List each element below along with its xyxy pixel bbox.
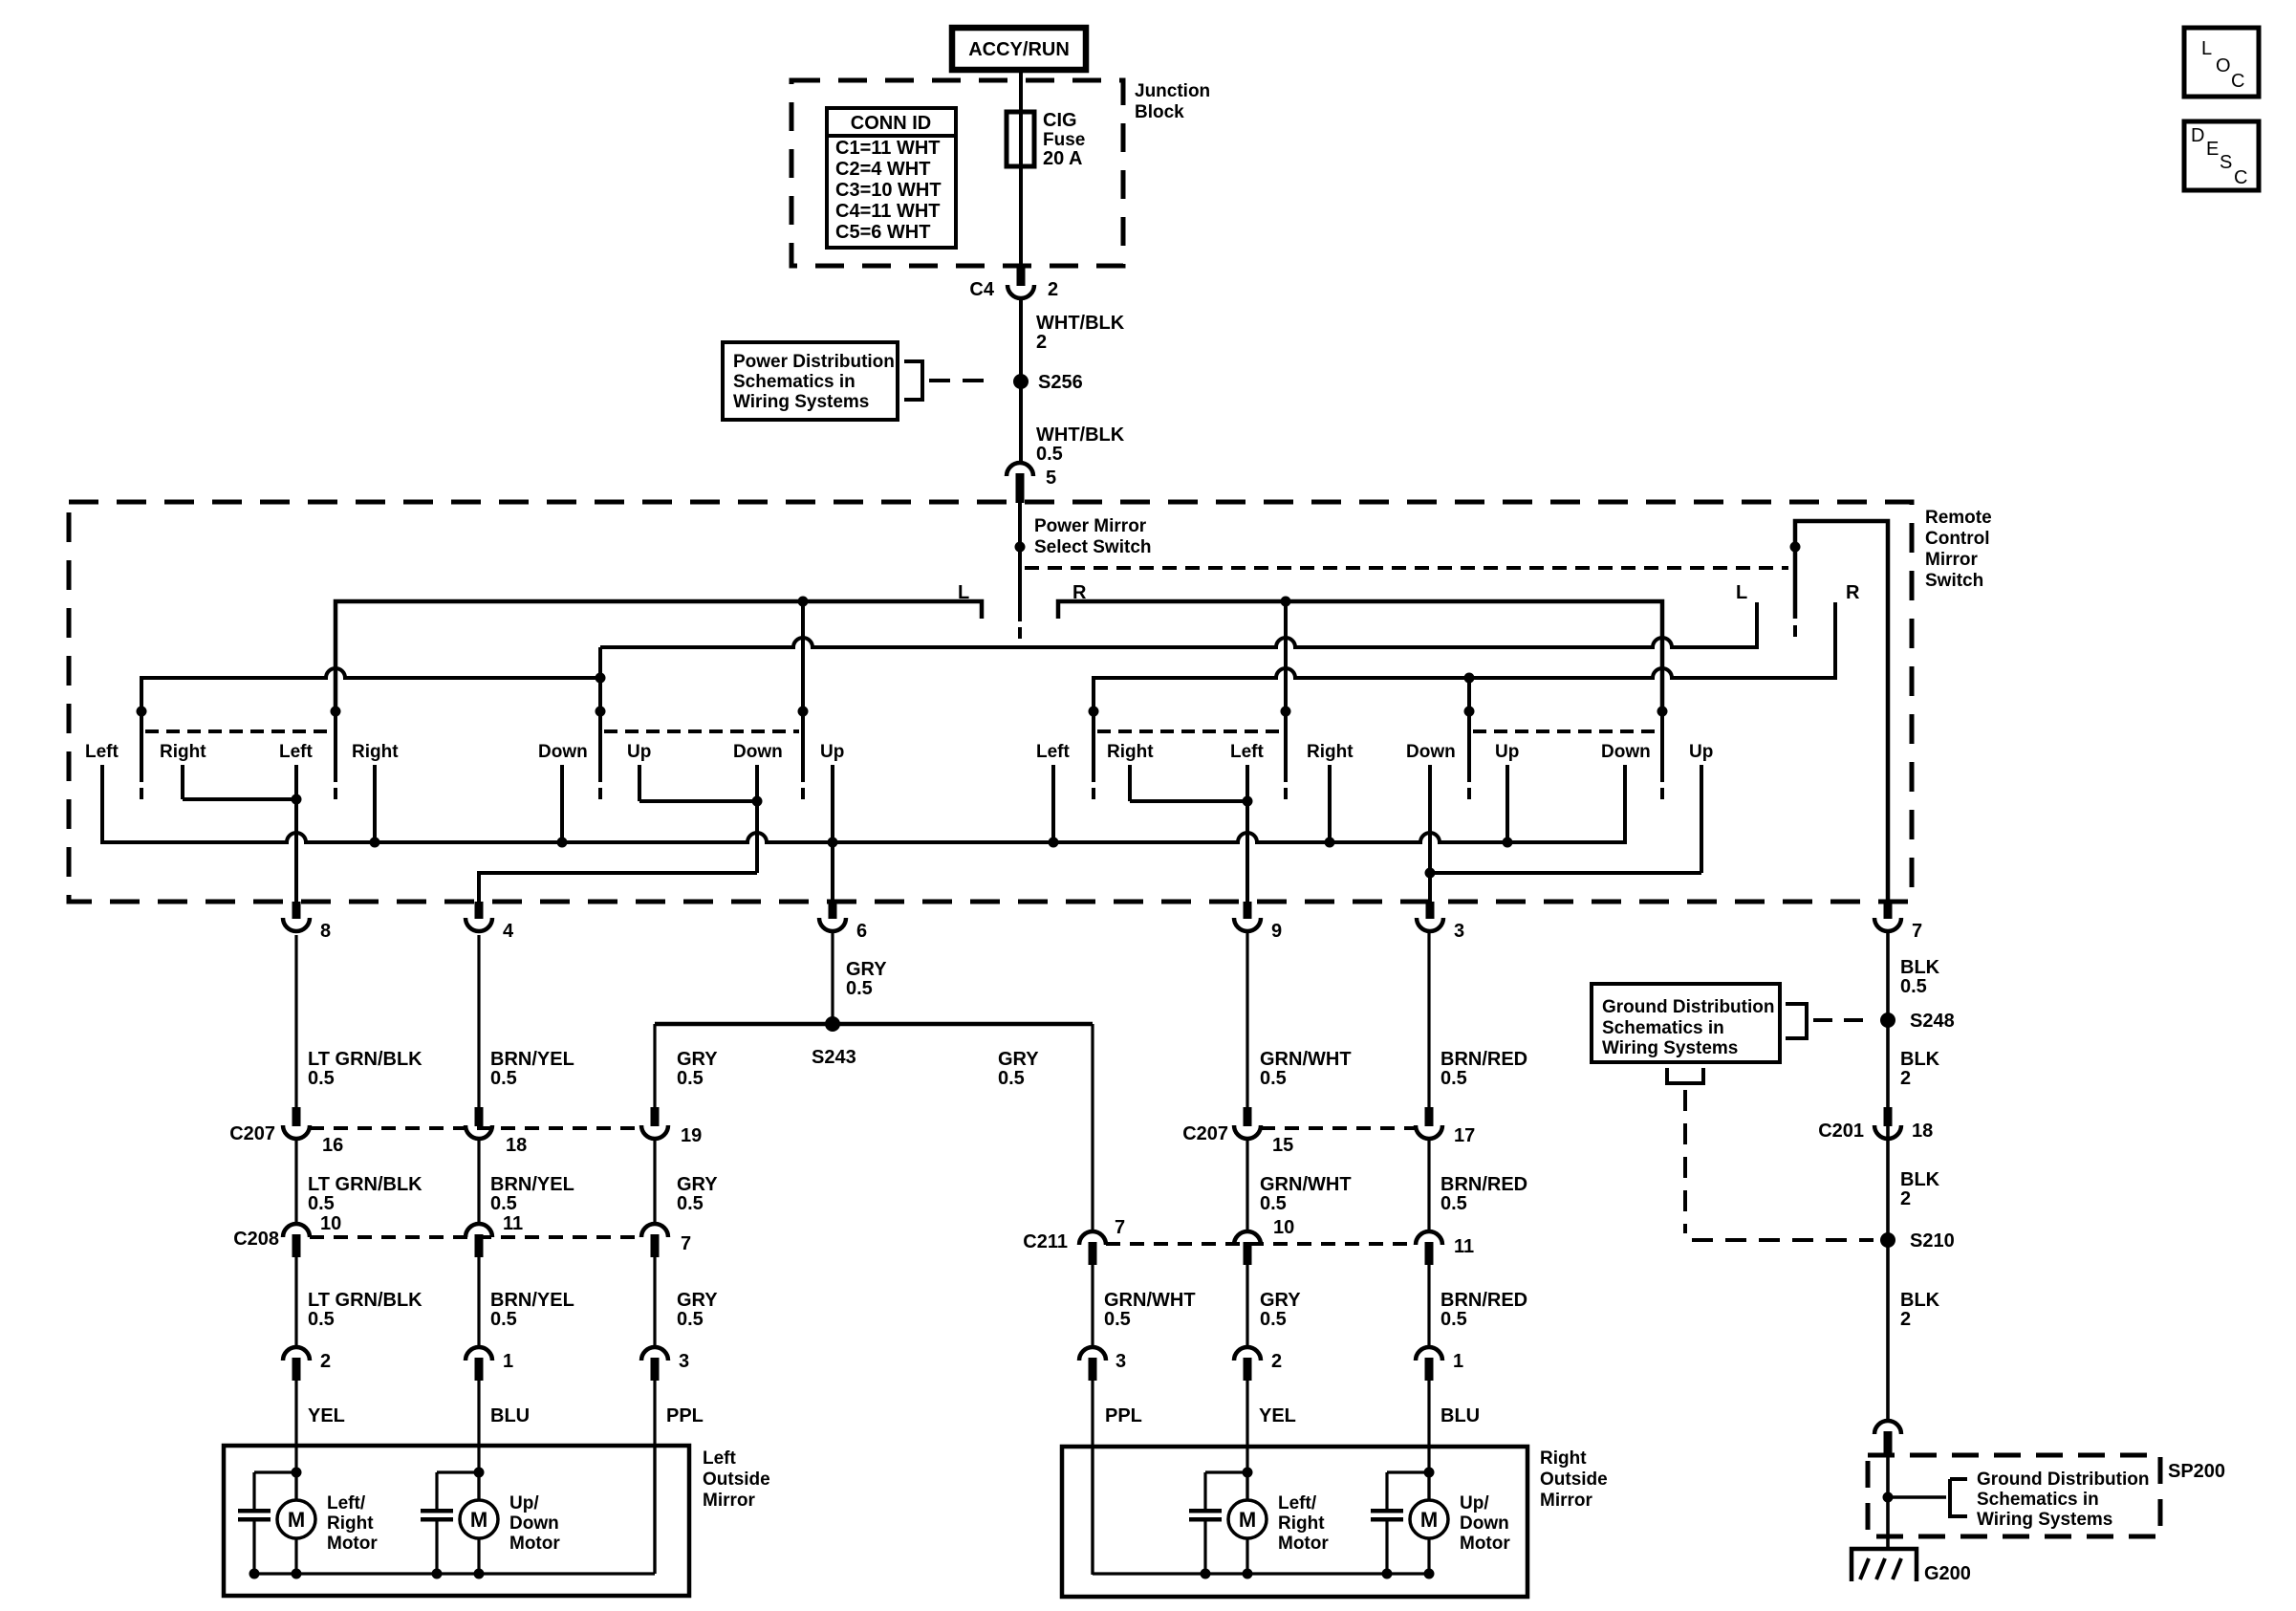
- svg-text:Right: Right: [327, 1513, 374, 1534]
- svg-text:Wiring Systems: Wiring Systems: [733, 392, 869, 412]
- svg-text:7: 7: [1115, 1217, 1125, 1238]
- svg-text:Mirror: Mirror: [703, 1491, 756, 1511]
- svg-text:Down: Down: [733, 742, 783, 762]
- svg-text:11: 11: [503, 1213, 523, 1234]
- svg-text:Mirror: Mirror: [1540, 1491, 1593, 1511]
- svg-text:LT GRN/BLK: LT GRN/BLK: [308, 1174, 422, 1195]
- svg-text:10: 10: [320, 1213, 341, 1234]
- svg-text:Motor: Motor: [509, 1534, 560, 1554]
- svg-text:BLK: BLK: [1900, 1169, 1940, 1190]
- svg-text:3: 3: [1454, 921, 1464, 942]
- svg-text:1: 1: [503, 1351, 513, 1372]
- svg-text:Motor: Motor: [327, 1534, 378, 1554]
- svg-text:E: E: [2206, 139, 2219, 160]
- svg-text:C208: C208: [233, 1229, 279, 1250]
- svg-text:C: C: [2234, 167, 2247, 188]
- svg-text:GRY: GRY: [998, 1049, 1039, 1070]
- svg-text:Motor: Motor: [1278, 1534, 1329, 1554]
- svg-text:GRY: GRY: [846, 959, 887, 980]
- svg-text:Up: Up: [820, 742, 844, 762]
- svg-text:L: L: [1736, 582, 1747, 603]
- svg-text:1: 1: [1453, 1351, 1463, 1372]
- svg-text:Down: Down: [509, 1513, 559, 1534]
- svg-text:C3=10 WHT: C3=10 WHT: [835, 180, 942, 201]
- svg-text:7: 7: [681, 1233, 691, 1254]
- svg-text:SP200: SP200: [2168, 1461, 2225, 1482]
- svg-text:Right: Right: [160, 742, 206, 762]
- svg-text:BLK: BLK: [1900, 1290, 1940, 1311]
- svg-text:C201: C201: [1818, 1121, 1864, 1142]
- svg-text:0.5: 0.5: [677, 1193, 704, 1214]
- svg-text:Switch: Switch: [1925, 571, 1983, 591]
- svg-text:18: 18: [506, 1135, 527, 1156]
- svg-text:7: 7: [1912, 921, 1922, 942]
- svg-text:0.5: 0.5: [1260, 1068, 1287, 1089]
- svg-text:Left: Left: [1230, 742, 1265, 762]
- svg-text:Down: Down: [1460, 1513, 1509, 1534]
- svg-text:0.5: 0.5: [677, 1068, 704, 1089]
- svg-text:Left: Left: [703, 1448, 737, 1469]
- svg-text:S210: S210: [1910, 1230, 1955, 1252]
- svg-text:D: D: [2191, 125, 2204, 146]
- svg-text:Schematics in: Schematics in: [1977, 1490, 2099, 1510]
- svg-text:LT GRN/BLK: LT GRN/BLK: [308, 1290, 422, 1311]
- svg-text:WHT/BLK: WHT/BLK: [1036, 425, 1125, 446]
- svg-text:18: 18: [1912, 1121, 1933, 1142]
- svg-text:YEL: YEL: [308, 1405, 345, 1426]
- svg-text:0.5: 0.5: [1900, 976, 1927, 997]
- svg-text:Up: Up: [627, 742, 651, 762]
- svg-text:Left: Left: [85, 742, 119, 762]
- svg-text:Wiring Systems: Wiring Systems: [1977, 1510, 2112, 1530]
- svg-text:BLK: BLK: [1900, 957, 1940, 978]
- svg-text:BLU: BLU: [1440, 1405, 1480, 1426]
- svg-text:2: 2: [1900, 1068, 1911, 1089]
- svg-text:Right: Right: [352, 742, 399, 762]
- svg-text:2: 2: [1036, 332, 1047, 353]
- svg-text:C4=11 WHT: C4=11 WHT: [835, 201, 940, 222]
- svg-text:Down: Down: [538, 742, 588, 762]
- svg-text:C207: C207: [1182, 1123, 1228, 1144]
- svg-text:4: 4: [503, 921, 514, 942]
- svg-text:5: 5: [1046, 468, 1056, 489]
- svg-text:R: R: [1846, 582, 1860, 603]
- svg-text:YEL: YEL: [1259, 1405, 1296, 1426]
- svg-text:6: 6: [856, 921, 867, 942]
- svg-text:0.5: 0.5: [490, 1309, 517, 1330]
- svg-text:Left: Left: [1036, 742, 1071, 762]
- svg-text:0.5: 0.5: [677, 1309, 704, 1330]
- svg-text:Fuse: Fuse: [1043, 130, 1085, 150]
- svg-text:O: O: [2216, 55, 2231, 76]
- svg-text:Right: Right: [1540, 1448, 1587, 1469]
- svg-text:BRN/RED: BRN/RED: [1440, 1174, 1527, 1195]
- svg-text:Select Switch: Select Switch: [1034, 537, 1152, 557]
- svg-text:C: C: [2231, 71, 2244, 92]
- svg-text:M: M: [1239, 1508, 1256, 1532]
- svg-text:GRY: GRY: [1260, 1290, 1301, 1311]
- svg-text:0.5: 0.5: [998, 1068, 1025, 1089]
- svg-text:LT GRN/BLK: LT GRN/BLK: [308, 1049, 422, 1070]
- svg-text:PPL: PPL: [1105, 1405, 1142, 1426]
- svg-text:Remote: Remote: [1925, 508, 1992, 528]
- svg-text:BLK: BLK: [1900, 1049, 1940, 1070]
- svg-text:Power Mirror: Power Mirror: [1034, 516, 1147, 536]
- svg-text:0.5: 0.5: [1260, 1309, 1287, 1330]
- svg-text:M: M: [470, 1508, 487, 1532]
- svg-text:19: 19: [681, 1125, 702, 1146]
- svg-text:Power Distribution: Power Distribution: [733, 352, 895, 372]
- svg-text:S: S: [2220, 152, 2232, 173]
- svg-text:C4: C4: [969, 279, 994, 300]
- svg-text:Outside: Outside: [703, 1469, 770, 1490]
- svg-text:GRY: GRY: [677, 1049, 718, 1070]
- svg-text:11: 11: [1454, 1236, 1474, 1257]
- svg-text:GRY: GRY: [677, 1174, 718, 1195]
- svg-text:BRN/YEL: BRN/YEL: [490, 1174, 574, 1195]
- svg-text:GRN/WHT: GRN/WHT: [1104, 1290, 1196, 1311]
- svg-text:8: 8: [320, 921, 331, 942]
- svg-text:0.5: 0.5: [1260, 1193, 1287, 1214]
- svg-text:15: 15: [1272, 1135, 1293, 1156]
- svg-text:2: 2: [1900, 1309, 1911, 1330]
- svg-text:PPL: PPL: [666, 1405, 704, 1426]
- svg-text:3: 3: [1116, 1351, 1126, 1372]
- svg-text:ACCY/RUN: ACCY/RUN: [968, 39, 1070, 60]
- svg-text:0.5: 0.5: [308, 1309, 335, 1330]
- svg-text:BRN/YEL: BRN/YEL: [490, 1049, 574, 1070]
- svg-text:Left/: Left/: [1278, 1493, 1317, 1513]
- svg-text:CIG: CIG: [1043, 110, 1077, 131]
- svg-text:Ground Distribution: Ground Distribution: [1602, 997, 1774, 1017]
- svg-text:2: 2: [320, 1351, 331, 1372]
- svg-text:9: 9: [1271, 921, 1282, 942]
- svg-text:17: 17: [1454, 1125, 1475, 1146]
- svg-text:Right: Right: [1107, 742, 1154, 762]
- svg-text:C1=11 WHT: C1=11 WHT: [835, 138, 940, 159]
- svg-text:Right: Right: [1307, 742, 1354, 762]
- svg-text:0.5: 0.5: [490, 1068, 517, 1089]
- svg-text:C211: C211: [1023, 1231, 1068, 1252]
- svg-text:G200: G200: [1924, 1563, 1971, 1584]
- svg-text:20 A: 20 A: [1043, 148, 1083, 169]
- svg-text:Junction: Junction: [1135, 81, 1210, 101]
- svg-text:Up: Up: [1689, 742, 1713, 762]
- svg-text:S248: S248: [1910, 1011, 1955, 1032]
- svg-text:Up: Up: [1495, 742, 1519, 762]
- svg-text:0.5: 0.5: [1104, 1309, 1131, 1330]
- svg-text:Left: Left: [279, 742, 314, 762]
- svg-text:Up/: Up/: [509, 1493, 539, 1513]
- svg-text:2: 2: [1900, 1188, 1911, 1209]
- svg-text:M: M: [288, 1508, 305, 1532]
- svg-text:BRN/RED: BRN/RED: [1440, 1049, 1527, 1070]
- svg-text:10: 10: [1273, 1217, 1294, 1238]
- svg-text:M: M: [1420, 1508, 1438, 1532]
- svg-text:Motor: Motor: [1460, 1534, 1510, 1554]
- svg-text:C5=6 WHT: C5=6 WHT: [835, 222, 930, 243]
- svg-text:0.5: 0.5: [1440, 1309, 1467, 1330]
- svg-text:Down: Down: [1601, 742, 1651, 762]
- svg-text:3: 3: [679, 1351, 689, 1372]
- svg-text:0.5: 0.5: [1440, 1193, 1467, 1214]
- svg-text:0.5: 0.5: [308, 1068, 335, 1089]
- svg-text:L: L: [2201, 38, 2212, 59]
- svg-text:S243: S243: [812, 1047, 856, 1068]
- svg-text:0.5: 0.5: [1036, 444, 1063, 465]
- svg-text:Schematics in: Schematics in: [1602, 1018, 1724, 1038]
- svg-text:C2=4 WHT: C2=4 WHT: [835, 159, 930, 180]
- svg-text:S256: S256: [1038, 372, 1083, 393]
- svg-text:2: 2: [1048, 279, 1058, 300]
- svg-text:Left/: Left/: [327, 1493, 366, 1513]
- svg-text:Wiring Systems: Wiring Systems: [1602, 1038, 1738, 1058]
- svg-text:Control: Control: [1925, 529, 1990, 549]
- svg-text:WHT/BLK: WHT/BLK: [1036, 313, 1125, 334]
- svg-text:BRN/RED: BRN/RED: [1440, 1290, 1527, 1311]
- svg-text:16: 16: [322, 1135, 343, 1156]
- svg-text:0.5: 0.5: [1440, 1068, 1467, 1089]
- svg-text:Up/: Up/: [1460, 1493, 1489, 1513]
- svg-text:2: 2: [1271, 1351, 1282, 1372]
- svg-text:BLU: BLU: [490, 1405, 530, 1426]
- svg-text:CONN ID: CONN ID: [851, 113, 931, 134]
- svg-text:Schematics in: Schematics in: [733, 372, 856, 392]
- svg-text:Ground Distribution: Ground Distribution: [1977, 1469, 2149, 1490]
- svg-text:0.5: 0.5: [846, 978, 873, 999]
- svg-text:GRN/WHT: GRN/WHT: [1260, 1049, 1352, 1070]
- svg-text:Down: Down: [1406, 742, 1456, 762]
- svg-text:0.5: 0.5: [308, 1193, 335, 1214]
- svg-text:GRN/WHT: GRN/WHT: [1260, 1174, 1352, 1195]
- svg-text:0.5: 0.5: [490, 1193, 517, 1214]
- svg-text:Outside: Outside: [1540, 1469, 1608, 1490]
- svg-text:Mirror: Mirror: [1925, 550, 1979, 570]
- svg-text:Block: Block: [1135, 102, 1184, 122]
- svg-text:C207: C207: [229, 1123, 275, 1144]
- svg-text:GRY: GRY: [677, 1290, 718, 1311]
- svg-text:BRN/YEL: BRN/YEL: [490, 1290, 574, 1311]
- svg-text:Right: Right: [1278, 1513, 1325, 1534]
